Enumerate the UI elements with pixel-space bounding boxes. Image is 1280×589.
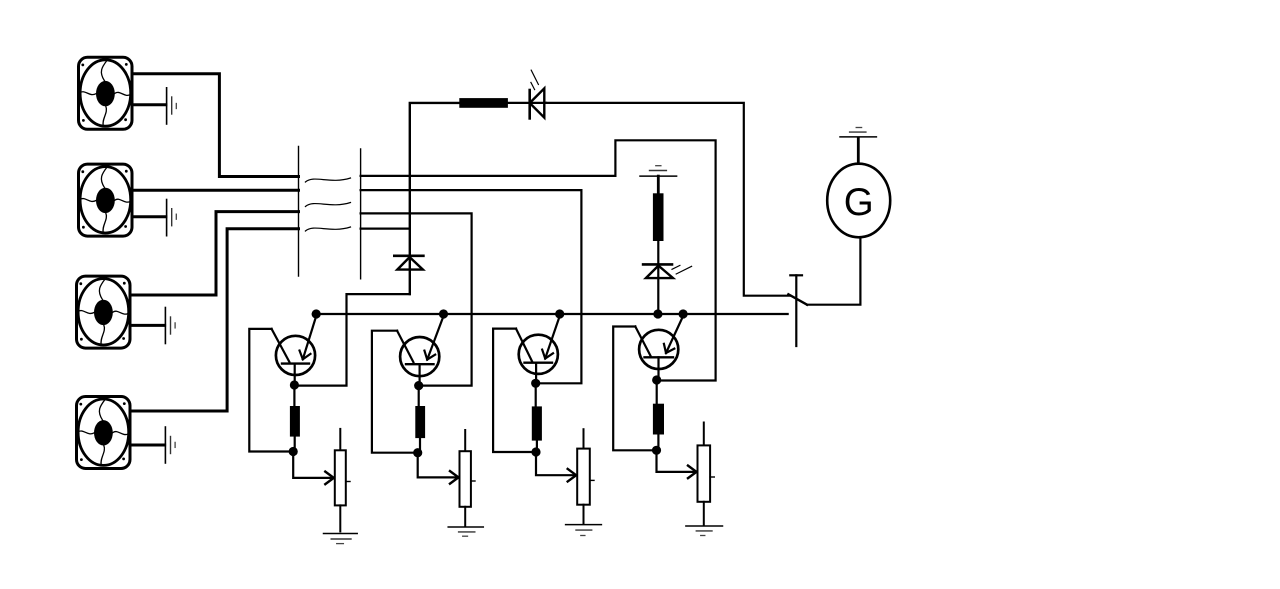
node Q3 bias bbox=[531, 447, 540, 456]
resistor R1 bbox=[459, 98, 508, 108]
diode D2 bbox=[394, 256, 423, 270]
wire cable riser to R1 bbox=[410, 103, 460, 294]
transistor Q2 bbox=[397, 316, 443, 386]
node Q1 emitter bbox=[290, 380, 299, 389]
wire Q2 base loop bbox=[372, 331, 416, 453]
wire net W1 cable to Q4 emitter bbox=[361, 140, 716, 380]
LED D3 bbox=[643, 264, 692, 278]
wire R1 to D1 bbox=[508, 102, 546, 104]
fan motor M2 bbox=[79, 164, 133, 236]
wire R4 to node bbox=[419, 438, 421, 453]
wire R3 to node bbox=[294, 437, 296, 452]
wire Q1 emitter to R3 bbox=[293, 385, 295, 406]
node Q4 collector bbox=[679, 309, 688, 318]
node D3 bus bbox=[653, 309, 662, 318]
node Q1 bias bbox=[289, 447, 298, 456]
wire net W4 cable to D2 branch bbox=[361, 228, 410, 230]
wire Q2 emitter to R4 bbox=[418, 386, 420, 406]
node Q2 bias bbox=[413, 448, 422, 457]
wire M3 to cable bbox=[131, 212, 298, 295]
wire M3 to ground bbox=[131, 324, 164, 327]
wire ground to R2 bbox=[657, 176, 660, 193]
switch S1 bbox=[788, 275, 807, 346]
wire Q3 base loop bbox=[493, 329, 533, 452]
node Q1 collector bbox=[312, 309, 321, 318]
wire Q3 emitter to R5 bbox=[535, 383, 537, 406]
potentiometer RV2 bbox=[460, 430, 476, 526]
fan motor M1 bbox=[79, 57, 133, 129]
wire node to RV4 wiper bbox=[657, 450, 697, 472]
wire D2 to Q1 emitter bbox=[295, 294, 410, 386]
node Q2 emitter bbox=[414, 381, 423, 390]
bus wire bbox=[313, 313, 788, 315]
wire Q4 base loop bbox=[613, 327, 654, 451]
ground M1 bbox=[167, 88, 177, 124]
node Q2 collector bbox=[439, 309, 448, 318]
potentiometer RV1 bbox=[335, 429, 350, 532]
svg-text:G: G bbox=[844, 181, 874, 224]
resistor R5 bbox=[532, 406, 542, 440]
cable squiggle 2 bbox=[305, 203, 350, 207]
wire node to RV3 wiper bbox=[536, 452, 576, 475]
cable squiggle 3 bbox=[305, 227, 350, 231]
transistor Q3 bbox=[516, 316, 560, 383]
transistor Q1 bbox=[272, 316, 317, 384]
wire Q1 base loop bbox=[249, 329, 291, 452]
node Q4 bias bbox=[652, 446, 661, 455]
wire switch to generator bbox=[807, 238, 860, 305]
ground above R2 bbox=[640, 166, 677, 176]
wire M1 to cable bbox=[134, 74, 299, 177]
potentiometer RV3 bbox=[577, 429, 594, 523]
wire net W2 cable to Q3 emitter bbox=[361, 190, 582, 383]
fan motor M4 bbox=[77, 397, 131, 469]
ground RV4 bbox=[686, 526, 723, 536]
cable connector J1 left plate bbox=[298, 146, 300, 276]
LED D1 bbox=[530, 70, 545, 118]
resistor R6 bbox=[653, 404, 664, 435]
cable connector J1 right plate bbox=[360, 149, 362, 279]
wire generator to ground bbox=[857, 138, 860, 163]
transistor Q4 bbox=[635, 316, 683, 379]
wire M2 to cable bbox=[134, 189, 299, 192]
fan motor M3 bbox=[77, 276, 131, 348]
wire M4 to cable bbox=[131, 229, 298, 411]
ground RV3 bbox=[566, 525, 602, 536]
ground RV1 bbox=[324, 534, 358, 544]
wire D1 to switch bbox=[544, 103, 790, 296]
wire node to RV2 wiper bbox=[418, 453, 459, 478]
node Q4 emitter bbox=[652, 375, 661, 384]
node Q3 emitter bbox=[531, 379, 540, 388]
wire Q4 emitter to R6 bbox=[656, 380, 658, 404]
ground G1 bbox=[840, 128, 876, 137]
potentiometer RV4 bbox=[698, 423, 715, 525]
wire R5 to node bbox=[536, 441, 538, 452]
resistor R2 bbox=[653, 193, 664, 241]
wire M4 to ground bbox=[131, 444, 164, 447]
ground M4 bbox=[165, 427, 175, 463]
generator G1 bbox=[827, 164, 890, 238]
ground RV2 bbox=[448, 527, 483, 536]
wire M1 to ground bbox=[134, 103, 166, 106]
cable squiggle 1 bbox=[305, 178, 350, 182]
resistor R4 bbox=[415, 406, 425, 438]
ground M3 bbox=[165, 308, 175, 344]
wire node to RV1 wiper bbox=[293, 452, 334, 478]
node Q3 collector bbox=[555, 309, 564, 318]
wire R2 to D3 bbox=[657, 241, 659, 314]
wire R6 to node bbox=[657, 435, 659, 451]
wire M2 to ground bbox=[134, 215, 166, 218]
wire net W3 cable to Q2 emitter bbox=[361, 213, 472, 385]
resistor R3 bbox=[290, 406, 300, 437]
ground M2 bbox=[167, 200, 177, 236]
